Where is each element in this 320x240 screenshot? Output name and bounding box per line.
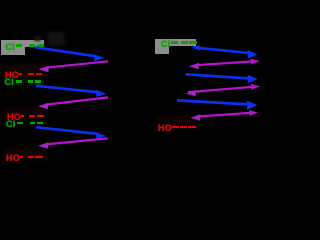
bond Cl row1 (16, 44, 22, 47)
faint jpeg halo row6 (4, 148, 46, 160)
arrow blue B1 panel1 (35, 47, 105, 61)
bond Cl row5 (17, 122, 23, 125)
bond HO row4 (21, 115, 25, 118)
arrow blue B2' panel2 (186, 74, 258, 83)
arrow purple P3' panel2 (double head) (191, 110, 259, 121)
faint jpeg halo row2 (3, 64, 47, 78)
faint smudge left structure top (34, 36, 41, 41)
label Cl row1 right panel (161, 41, 171, 48)
label HO row2 left (5, 72, 19, 79)
faint jpeg halo HO right panel (156, 117, 196, 129)
faint jpeg halo row3 (3, 78, 43, 86)
label Cl row5 left (6, 121, 16, 128)
label HO row6 left (6, 155, 20, 162)
bond HO row6 (20, 156, 24, 159)
arrow blue B3 panel1 (36, 127, 107, 139)
label Cl row1 left (6, 44, 16, 51)
label Cl row3 left (5, 79, 15, 86)
arrow blue B2 panel1 (36, 86, 107, 97)
highlight box A (left panel, around top Cl group) (1, 40, 25, 55)
arrow purple P1' panel2 (double head) (189, 59, 260, 70)
bond Cl row3 (16, 80, 22, 83)
arrow purple P2 panel1 (points left) (38, 97, 108, 109)
faint jpeg halo row4 (4, 107, 46, 119)
bond HO row2 (19, 73, 23, 76)
arrow purple P1 panel1 (points left) (39, 61, 109, 72)
faint CH3 smudge top of centre structure (48, 32, 65, 46)
arrow blue B1' panel2 (192, 45, 258, 59)
label HO row2 right panel (158, 125, 172, 132)
highlight box B (right panel, around top Cl group) (155, 39, 169, 54)
arrow blue B3' panel2 (177, 100, 258, 109)
bond Cl row1 right panel (171, 41, 178, 44)
label HO row4 left (7, 114, 21, 121)
arrow purple P3 panel1 (points left) (38, 138, 108, 149)
highlight box B strip (169, 39, 196, 46)
highlight box A strip (25, 40, 44, 47)
arrow purple P2' panel2 (double head) (186, 84, 260, 97)
bond HO row2 right panel (172, 126, 179, 129)
